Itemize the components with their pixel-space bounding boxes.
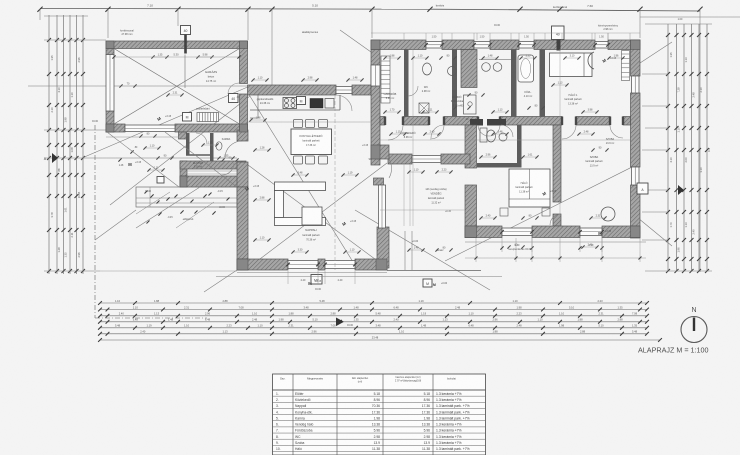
entry porch [118, 147, 237, 228]
roof projection diagonals [82, 30, 672, 290]
kitchen counter [250, 95, 340, 118]
property dashed line left [95, 125, 207, 318]
bathroom fixtures [408, 60, 533, 142]
bathtub [518, 55, 534, 82]
scattered annotation texts [92, 18, 683, 291]
garage cross diagonals [114, 49, 240, 125]
bottom dimension band [98, 299, 662, 342]
guest room top wall [388, 125, 522, 168]
slope markers [128, 57, 616, 286]
wardrobe band gardrob [381, 56, 390, 103]
radiator blocks [470, 119, 506, 126]
main house right wall [631, 40, 641, 238]
bedroom divider wall [553, 125, 561, 226]
beds [500, 52, 615, 225]
room schedule table [273, 374, 486, 455]
north compass [681, 307, 707, 343]
bedroom section left wall [465, 125, 477, 238]
sofa [275, 182, 326, 226]
main house top wall [371, 40, 640, 50]
left dimension column [28, 15, 250, 274]
site dimension line top [37, 4, 702, 12]
room texts upper [384, 86, 615, 193]
bath double sink [479, 60, 511, 72]
shower room3 [464, 95, 477, 114]
right dimension column [642, 24, 712, 273]
main house left wall [371, 50, 380, 166]
interior dimension clusters [119, 54, 624, 254]
chimney box main house [552, 26, 565, 51]
window jamb marks top wall [286, 33, 610, 284]
living room text [303, 228, 320, 241]
closet strip topright [622, 51, 630, 81]
below-wall dim drops right section [465, 238, 646, 262]
upper room extension drops [371, 33, 640, 40]
wall corner posts [106, 40, 640, 270]
garage attic ladder [197, 113, 219, 122]
living room walls [237, 145, 392, 270]
living marker boxes [297, 97, 323, 285]
site extension verticals [40, 5, 740, 272]
terrace [204, 231, 646, 292]
garage text [120, 30, 274, 111]
entry interior partitions [186, 133, 234, 175]
corridor wall [380, 117, 631, 126]
hall left wall stubs [106, 130, 248, 187]
left wall window house [371, 65, 380, 86]
section square right [637, 183, 648, 194]
title [638, 346, 709, 355]
interior reference lines [100, 49, 630, 271]
garage marker boxes [183, 94, 239, 122]
garage inner dim line [112, 53, 240, 89]
dining table and chairs [291, 120, 332, 165]
garage walls [106, 41, 248, 132]
interior partitions upper rooms [404, 50, 545, 117]
entry walls [179, 132, 247, 187]
garage chimney [181, 26, 191, 54]
guest room texts [404, 164, 452, 226]
door arcs corridor [228, 83, 623, 140]
entry roof diagonals [95, 132, 237, 240]
bottom wall right section [465, 226, 640, 238]
corridor door jambs [384, 117, 624, 126]
kitchen top wall [248, 85, 372, 95]
